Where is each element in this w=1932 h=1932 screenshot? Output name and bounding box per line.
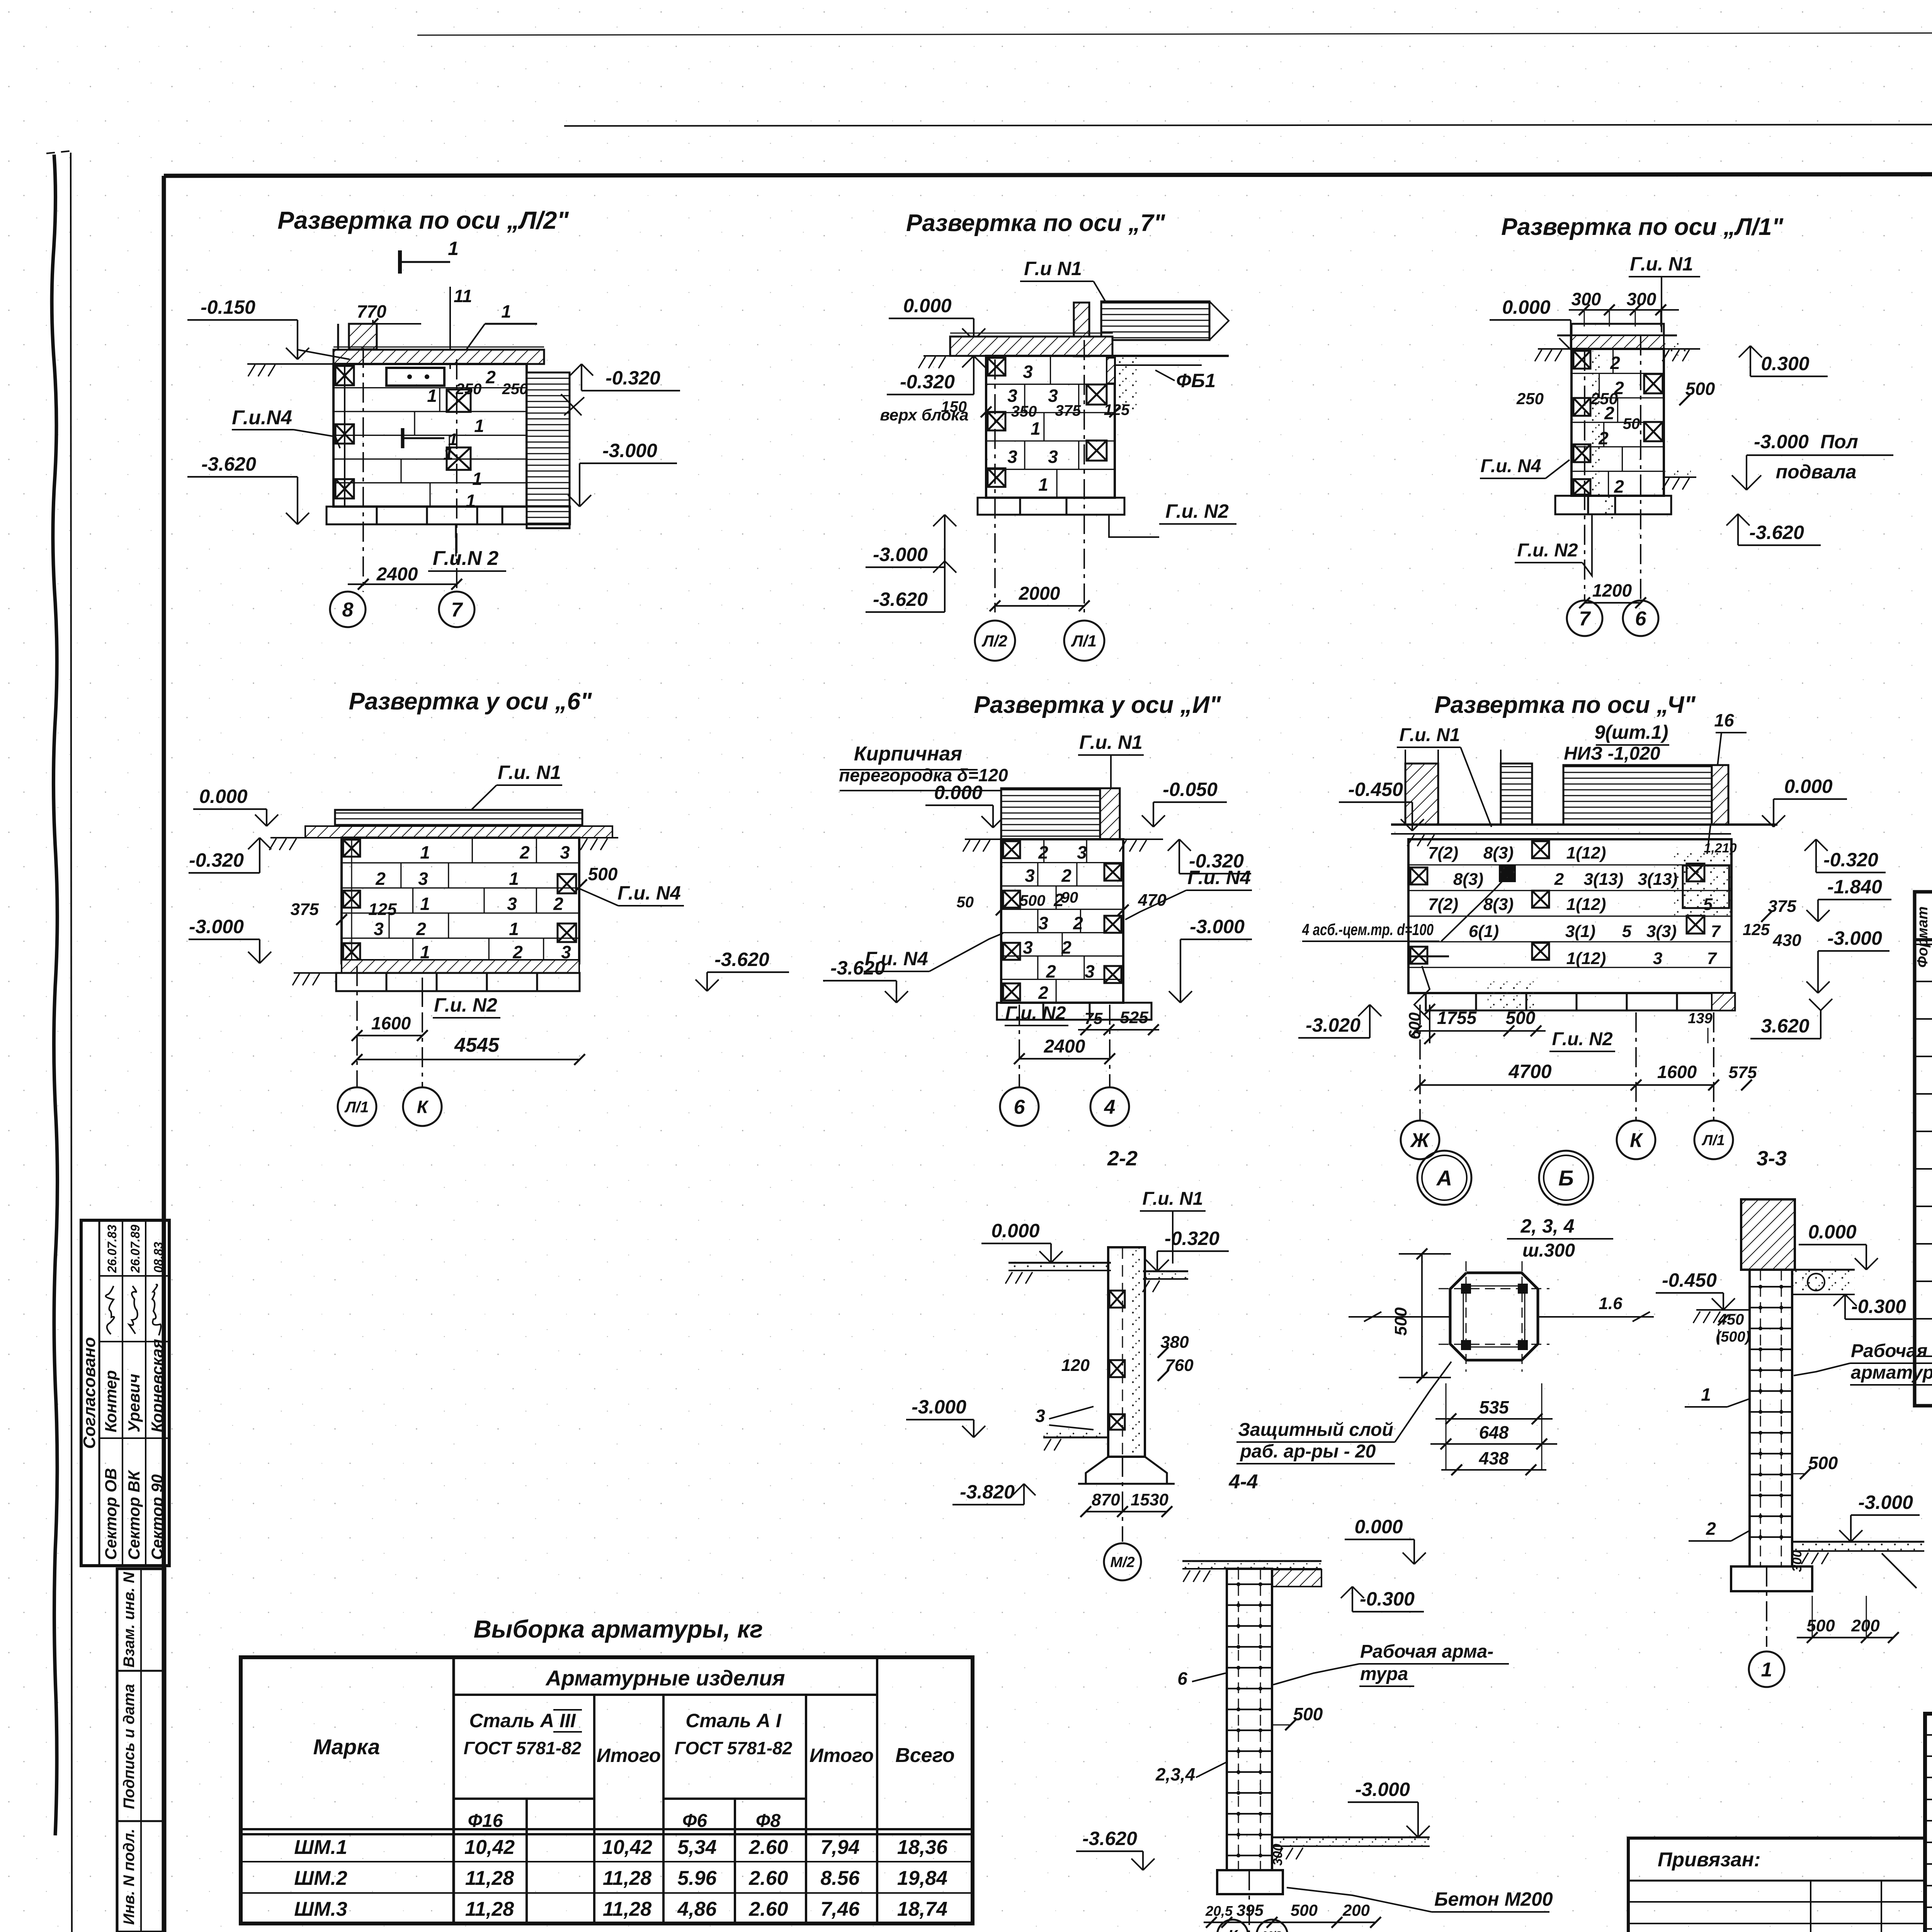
svg-text:3(1): 3(1) [1565, 922, 1595, 941]
svg-text:Развертка у оси „И": Развертка у оси „И" [974, 692, 1221, 718]
svg-text:2: 2 [1610, 353, 1620, 373]
svg-text:ГОСТ 5781-82: ГОСТ 5781-82 [675, 1738, 793, 1758]
svg-text:Согласовано: Согласовано [80, 1337, 99, 1449]
svg-text:500: 500 [1806, 1616, 1835, 1635]
svg-text:-0.050: -0.050 [1163, 779, 1218, 800]
svg-text:Г.и. N2: Г.и. N2 [1005, 1003, 1066, 1024]
svg-text:2400: 2400 [376, 564, 418, 585]
svg-text:0.000: 0.000 [903, 295, 951, 316]
svg-text:Корневская: Корневская [148, 1339, 166, 1432]
svg-text:1755: 1755 [1437, 1008, 1477, 1028]
svg-text:2: 2 [1706, 1519, 1716, 1539]
svg-text:1: 1 [474, 416, 484, 436]
svg-text:200: 200 [1342, 1901, 1370, 1919]
svg-text:ФБ1: ФБ1 [1176, 370, 1216, 391]
svg-text:2.60: 2.60 [748, 1867, 788, 1889]
svg-text:-3.000: -3.000 [189, 916, 244, 937]
svg-text:Инв. N подл.: Инв. N подл. [121, 1829, 138, 1925]
svg-text:арматура: арматура [1851, 1362, 1932, 1383]
svg-text:Бетон М200: Бетон М200 [1434, 1888, 1553, 1910]
svg-text:90: 90 [1061, 889, 1078, 906]
svg-text:430: 430 [1772, 931, 1801, 950]
svg-text:-0.150: -0.150 [201, 296, 255, 318]
svg-text:Итого: Итого [597, 1745, 661, 1766]
svg-text:26.07.89: 26.07.89 [128, 1225, 142, 1273]
svg-text:0.000: 0.000 [1784, 776, 1832, 797]
svg-text:Б: Б [1558, 1166, 1574, 1190]
svg-text:10,42: 10,42 [602, 1836, 652, 1859]
svg-text:-3.620: -3.620 [873, 588, 928, 610]
svg-text:Л/2: Л/2 [981, 632, 1007, 650]
svg-text:300: 300 [1571, 289, 1601, 309]
svg-text:Развертка по оси „Ч": Развертка по оси „Ч" [1434, 692, 1696, 718]
svg-text:Контер: Контер [102, 1370, 120, 1432]
svg-text:2: 2 [553, 894, 563, 914]
svg-text:-0.320: -0.320 [1165, 1228, 1219, 1249]
svg-text:2: 2 [1614, 476, 1624, 497]
svg-text:2000: 2000 [1019, 583, 1060, 604]
svg-text:2: 2 [1061, 937, 1071, 957]
svg-text:ШМ.3: ШМ.3 [294, 1898, 347, 1920]
svg-text:250: 250 [1516, 389, 1544, 408]
svg-text:770: 770 [357, 301, 386, 321]
svg-text:3: 3 [418, 869, 428, 889]
svg-text:50: 50 [957, 894, 974, 911]
svg-text:7: 7 [1707, 949, 1718, 968]
svg-text:500: 500 [1293, 1704, 1323, 1724]
svg-text:500: 500 [1020, 892, 1046, 909]
svg-text:8(3): 8(3) [1483, 895, 1514, 914]
svg-text:3: 3 [1025, 866, 1035, 886]
svg-text:4 асб.-цем.тр. d=100: 4 асб.-цем.тр. d=100 [1302, 920, 1434, 939]
svg-text:2: 2 [485, 367, 496, 387]
svg-text:Г.и.N4: Г.и.N4 [232, 406, 292, 429]
svg-text:11,28: 11,28 [603, 1898, 651, 1920]
svg-text:08.83: 08.83 [151, 1242, 165, 1273]
svg-text:Л/1: Л/1 [1071, 632, 1097, 650]
svg-text:250: 250 [502, 381, 528, 398]
svg-text:-0.320: -0.320 [189, 849, 244, 871]
svg-text:К: К [1228, 1927, 1238, 1932]
svg-text:-3.000: -3.000 [1754, 431, 1809, 452]
svg-text:500: 500 [1391, 1307, 1410, 1336]
svg-text:4: 4 [1104, 1096, 1116, 1119]
svg-text:-0.320: -0.320 [1823, 849, 1878, 871]
svg-text:Арматурные изделия: Арматурные изделия [545, 1666, 785, 1690]
svg-text:1: 1 [420, 894, 430, 914]
svg-text:2: 2 [1061, 866, 1071, 886]
svg-text:-3.000: -3.000 [912, 1396, 966, 1418]
svg-text:450: 450 [1718, 1311, 1744, 1328]
svg-text:Г.и. N2: Г.и. N2 [434, 994, 497, 1016]
svg-text:Л/1: Л/1 [1701, 1133, 1725, 1149]
svg-text:-3.000: -3.000 [602, 440, 657, 461]
svg-text:1: 1 [1038, 474, 1048, 495]
svg-text:-3.820: -3.820 [960, 1481, 1015, 1503]
svg-text:-0.320: -0.320 [1189, 850, 1244, 872]
svg-text:1.6: 1.6 [1599, 1294, 1622, 1313]
svg-text:7: 7 [451, 599, 463, 621]
svg-text:3: 3 [374, 919, 384, 939]
svg-text:М/2: М/2 [1262, 1929, 1282, 1932]
svg-text:575: 575 [1728, 1063, 1757, 1082]
svg-text:Л/1: Л/1 [344, 1099, 369, 1116]
svg-text:75: 75 [1085, 1009, 1103, 1027]
svg-text:Развертка у оси „6": Развертка у оси „6" [349, 688, 592, 715]
svg-text:-3.000: -3.000 [873, 544, 928, 565]
svg-text:Подпись и дата: Подпись и дата [121, 1684, 138, 1809]
svg-text:16: 16 [1714, 710, 1734, 730]
svg-text:0.000: 0.000 [934, 782, 982, 803]
svg-text:10,42: 10,42 [464, 1836, 515, 1859]
svg-text:Г.и. N2: Г.и. N2 [1517, 540, 1578, 561]
svg-text:Развертка по оси „Л/2": Развертка по оси „Л/2" [277, 206, 569, 234]
svg-text:3(3): 3(3) [1646, 922, 1677, 941]
svg-text:7,46: 7,46 [820, 1898, 860, 1920]
svg-text:7(2): 7(2) [1428, 895, 1458, 914]
svg-text:1(12): 1(12) [1566, 895, 1606, 914]
svg-text:1530: 1530 [1131, 1490, 1168, 1509]
svg-text:Г.и N1: Г.и N1 [1024, 258, 1082, 279]
svg-text:4545: 4545 [454, 1034, 500, 1056]
svg-text:3: 3 [1023, 937, 1033, 957]
svg-text:-0.300: -0.300 [1851, 1296, 1906, 1317]
svg-text:2: 2 [1046, 961, 1056, 981]
svg-text:-1.840: -1.840 [1827, 876, 1882, 898]
svg-text:0.000: 0.000 [199, 786, 247, 807]
svg-text:2: 2 [1554, 870, 1564, 889]
svg-text:3-3: 3-3 [1757, 1147, 1787, 1170]
svg-text:3: 3 [507, 894, 517, 914]
svg-text:ГОСТ 5781-82: ГОСТ 5781-82 [464, 1738, 582, 1758]
svg-text:2: 2 [375, 869, 386, 889]
svg-text:1: 1 [1031, 418, 1041, 439]
svg-text:19,84: 19,84 [897, 1867, 947, 1889]
svg-text:М/2: М/2 [1110, 1554, 1134, 1571]
svg-text:ШМ.2: ШМ.2 [294, 1867, 347, 1889]
svg-text:подвала: подвала [1776, 461, 1857, 483]
svg-text:8.56: 8.56 [820, 1867, 860, 1889]
svg-text:500: 500 [1506, 1008, 1536, 1028]
svg-text:1: 1 [509, 919, 519, 939]
svg-text:380: 380 [1160, 1333, 1189, 1352]
svg-text:2: 2 [519, 842, 530, 862]
svg-text:1: 1 [501, 301, 511, 321]
svg-text:375: 375 [1768, 897, 1796, 916]
svg-text:-3.000: -3.000 [1858, 1492, 1913, 1513]
svg-text:11: 11 [454, 286, 472, 306]
svg-text:4,86: 4,86 [677, 1898, 717, 1920]
svg-text:1: 1 [1761, 1659, 1772, 1681]
svg-text:6: 6 [1014, 1096, 1026, 1119]
svg-text:3: 3 [1035, 1406, 1045, 1426]
svg-text:3: 3 [1077, 842, 1087, 862]
svg-text:1: 1 [448, 238, 459, 259]
svg-text:Выборка арматуры, кг: Выборка арматуры, кг [474, 1615, 763, 1643]
svg-text:-3.000: -3.000 [1190, 916, 1245, 937]
svg-text:3: 3 [1007, 447, 1017, 467]
svg-text:125: 125 [1743, 920, 1770, 939]
svg-text:438: 438 [1479, 1448, 1509, 1468]
svg-text:0.000: 0.000 [1502, 296, 1550, 318]
svg-text:Сталь А III: Сталь А III [469, 1710, 576, 1731]
svg-text:525: 525 [1120, 1008, 1148, 1027]
svg-text:0.000: 0.000 [991, 1220, 1039, 1242]
svg-text:перегородка δ=120: перегородка δ=120 [839, 765, 1008, 785]
svg-text:-3.000: -3.000 [1827, 927, 1882, 949]
svg-text:8: 8 [342, 599, 354, 621]
svg-text:Г.и. N4: Г.и. N4 [617, 882, 681, 904]
svg-text:2400: 2400 [1044, 1036, 1085, 1057]
svg-text:Г.и. N1: Г.и. N1 [1142, 1189, 1203, 1209]
svg-text:535: 535 [1479, 1397, 1509, 1417]
svg-text:1,210: 1,210 [1704, 841, 1736, 855]
svg-text:18,74: 18,74 [897, 1898, 947, 1920]
svg-text:3: 3 [1085, 961, 1095, 981]
svg-text:9(шт.1): 9(шт.1) [1594, 721, 1668, 743]
svg-text:200: 200 [1851, 1616, 1880, 1635]
svg-text:1600: 1600 [1657, 1062, 1697, 1082]
svg-text:1: 1 [420, 842, 430, 862]
svg-text:18,36: 18,36 [897, 1836, 948, 1859]
svg-text:0.000: 0.000 [1354, 1516, 1403, 1537]
svg-text:Развертка по оси „Л/1": Развертка по оси „Л/1" [1501, 214, 1784, 240]
svg-text:Г.и.N 2: Г.и.N 2 [433, 547, 498, 570]
svg-text:Г.и. N1: Г.и. N1 [1079, 731, 1143, 753]
svg-text:Привязан:: Привязан: [1658, 1849, 1760, 1871]
svg-text:Г.и. N2: Г.и. N2 [1552, 1029, 1612, 1049]
svg-text:4700: 4700 [1508, 1061, 1551, 1082]
svg-text:Защитный слой: Защитный слой [1238, 1420, 1393, 1440]
svg-text:-0.300: -0.300 [1360, 1588, 1415, 1610]
svg-text:2: 2 [1038, 983, 1048, 1003]
svg-text:2.60: 2.60 [748, 1898, 788, 1920]
svg-text:Сектор ВК: Сектор ВК [125, 1469, 143, 1560]
svg-text:Пол: Пол [1820, 431, 1858, 452]
svg-text:-3.620: -3.620 [830, 957, 885, 979]
svg-text:7: 7 [1579, 608, 1591, 630]
svg-text:50: 50 [1623, 415, 1640, 432]
svg-text:-0.320: -0.320 [900, 371, 955, 393]
svg-text:8(3): 8(3) [1483, 844, 1514, 862]
svg-text:5.96: 5.96 [677, 1867, 717, 1889]
svg-text:2, 3, 4: 2, 3, 4 [1520, 1215, 1575, 1237]
svg-text:20,5: 20,5 [1205, 1903, 1233, 1919]
svg-text:(500): (500) [1716, 1329, 1750, 1345]
svg-text:2,3,4: 2,3,4 [1155, 1764, 1195, 1784]
svg-text:Ж: Ж [1410, 1129, 1430, 1152]
svg-text:1(12): 1(12) [1566, 844, 1606, 862]
svg-text:тура: тура [1360, 1664, 1408, 1684]
svg-text:6: 6 [1635, 608, 1647, 630]
svg-text:1: 1 [427, 386, 437, 406]
svg-text:раб. ар-ры - 20: раб. ар-ры - 20 [1240, 1441, 1376, 1462]
svg-text:1(12): 1(12) [1566, 949, 1606, 968]
svg-text:3.620: 3.620 [1761, 1015, 1809, 1037]
svg-text:2-2: 2-2 [1107, 1147, 1138, 1170]
svg-text:Г.и. N4: Г.и. N4 [1480, 456, 1541, 476]
svg-text:2: 2 [1073, 913, 1083, 933]
svg-text:-3.000: -3.000 [1355, 1779, 1410, 1800]
svg-text:139: 139 [1688, 1010, 1712, 1027]
svg-text:3(13): 3(13) [1584, 870, 1624, 889]
svg-text:Сектор ОВ: Сектор ОВ [102, 1468, 120, 1560]
svg-text:1: 1 [472, 469, 482, 489]
svg-text:3: 3 [1023, 362, 1033, 382]
svg-text:2: 2 [1038, 842, 1048, 862]
svg-text:3(13): 3(13) [1638, 870, 1678, 889]
svg-text:375: 375 [291, 900, 319, 919]
svg-text:К: К [417, 1097, 429, 1117]
svg-text:3: 3 [1038, 913, 1048, 933]
svg-text:300: 300 [1270, 1844, 1285, 1866]
svg-text:8(3): 8(3) [1453, 870, 1483, 889]
svg-text:11,28: 11,28 [465, 1867, 514, 1889]
svg-text:Рабочая арма-: Рабочая арма- [1360, 1641, 1493, 1662]
svg-text:А: А [1436, 1166, 1452, 1190]
svg-text:-0.450: -0.450 [1662, 1269, 1717, 1291]
svg-text:500: 500 [1808, 1453, 1838, 1473]
svg-text:0.000: 0.000 [1808, 1221, 1856, 1243]
svg-text:2.60: 2.60 [748, 1836, 788, 1859]
svg-text:-0.320: -0.320 [605, 367, 660, 389]
svg-text:6: 6 [1177, 1668, 1187, 1689]
svg-text:-3.620: -3.620 [714, 949, 769, 970]
svg-text:3: 3 [1048, 447, 1058, 467]
svg-text:Формат: Формат [1915, 906, 1931, 968]
svg-text:1600: 1600 [371, 1013, 411, 1033]
svg-text:Г.и. N1: Г.и. N1 [1399, 725, 1460, 745]
svg-text:375: 375 [1055, 402, 1081, 419]
svg-text:Уревич: Уревич [125, 1374, 143, 1432]
svg-text:-3.620: -3.620 [201, 453, 256, 475]
svg-text:Сталь А I: Сталь А I [685, 1710, 782, 1731]
svg-text:11,28: 11,28 [603, 1867, 651, 1889]
svg-text:7(2): 7(2) [1428, 844, 1458, 862]
svg-text:1200: 1200 [1592, 580, 1632, 600]
svg-text:Г.и. N1: Г.и. N1 [498, 762, 561, 783]
svg-text:300: 300 [1627, 289, 1656, 309]
svg-text:ш.300: ш.300 [1522, 1240, 1575, 1261]
svg-text:2: 2 [416, 919, 426, 939]
svg-text:3: 3 [1653, 949, 1662, 968]
svg-text:125: 125 [368, 900, 397, 919]
svg-text:Марка: Марка [313, 1735, 380, 1759]
svg-text:500: 500 [1291, 1901, 1318, 1919]
svg-text:Г.и. N2: Г.и. N2 [1165, 500, 1229, 522]
svg-text:500: 500 [588, 864, 618, 884]
svg-text:0.300: 0.300 [1761, 353, 1809, 374]
svg-text:Взам. инв. N: Взам. инв. N [121, 1571, 138, 1667]
svg-text:120: 120 [1061, 1356, 1090, 1375]
svg-text:26.07.83: 26.07.83 [105, 1225, 119, 1273]
svg-text:648: 648 [1479, 1422, 1509, 1442]
svg-text:7,94: 7,94 [820, 1836, 859, 1859]
svg-text:Развертка по оси „7": Развертка по оси „7" [906, 210, 1166, 236]
svg-text:1: 1 [466, 491, 476, 511]
svg-text:-3.620: -3.620 [1749, 522, 1804, 543]
svg-text:Кирпичная: Кирпичная [854, 743, 962, 765]
svg-text:300: 300 [1790, 1550, 1804, 1572]
svg-text:3: 3 [560, 842, 570, 862]
svg-text:К: К [1630, 1129, 1643, 1152]
svg-text:11,28: 11,28 [465, 1898, 514, 1920]
svg-text:верх блока: верх блока [880, 406, 968, 424]
svg-text:-0.450: -0.450 [1348, 779, 1403, 800]
svg-text:5: 5 [1622, 922, 1632, 941]
svg-text:1: 1 [1701, 1384, 1711, 1405]
svg-text:Г.и. N1: Г.и. N1 [1630, 253, 1693, 275]
svg-text:Сектор 90: Сектор 90 [148, 1475, 166, 1560]
svg-text:6(1): 6(1) [1469, 922, 1499, 941]
svg-text:350: 350 [1011, 403, 1037, 420]
svg-text:7: 7 [1711, 922, 1721, 941]
svg-text:Всего: Всего [895, 1744, 955, 1767]
svg-text:-3.620: -3.620 [1082, 1828, 1137, 1849]
svg-text:1: 1 [509, 869, 519, 889]
svg-text:Итого: Итого [810, 1745, 874, 1766]
svg-text:395: 395 [1236, 1901, 1264, 1919]
svg-text:4-4: 4-4 [1228, 1471, 1258, 1493]
svg-text:870: 870 [1092, 1490, 1120, 1509]
svg-text:760: 760 [1165, 1356, 1194, 1375]
svg-text:5,34: 5,34 [677, 1836, 716, 1859]
svg-text:-3.020: -3.020 [1306, 1014, 1361, 1036]
svg-text:НИЗ -1,020: НИЗ -1,020 [1564, 743, 1660, 764]
svg-text:ШМ.1: ШМ.1 [294, 1836, 347, 1859]
svg-text:250: 250 [1590, 389, 1618, 408]
